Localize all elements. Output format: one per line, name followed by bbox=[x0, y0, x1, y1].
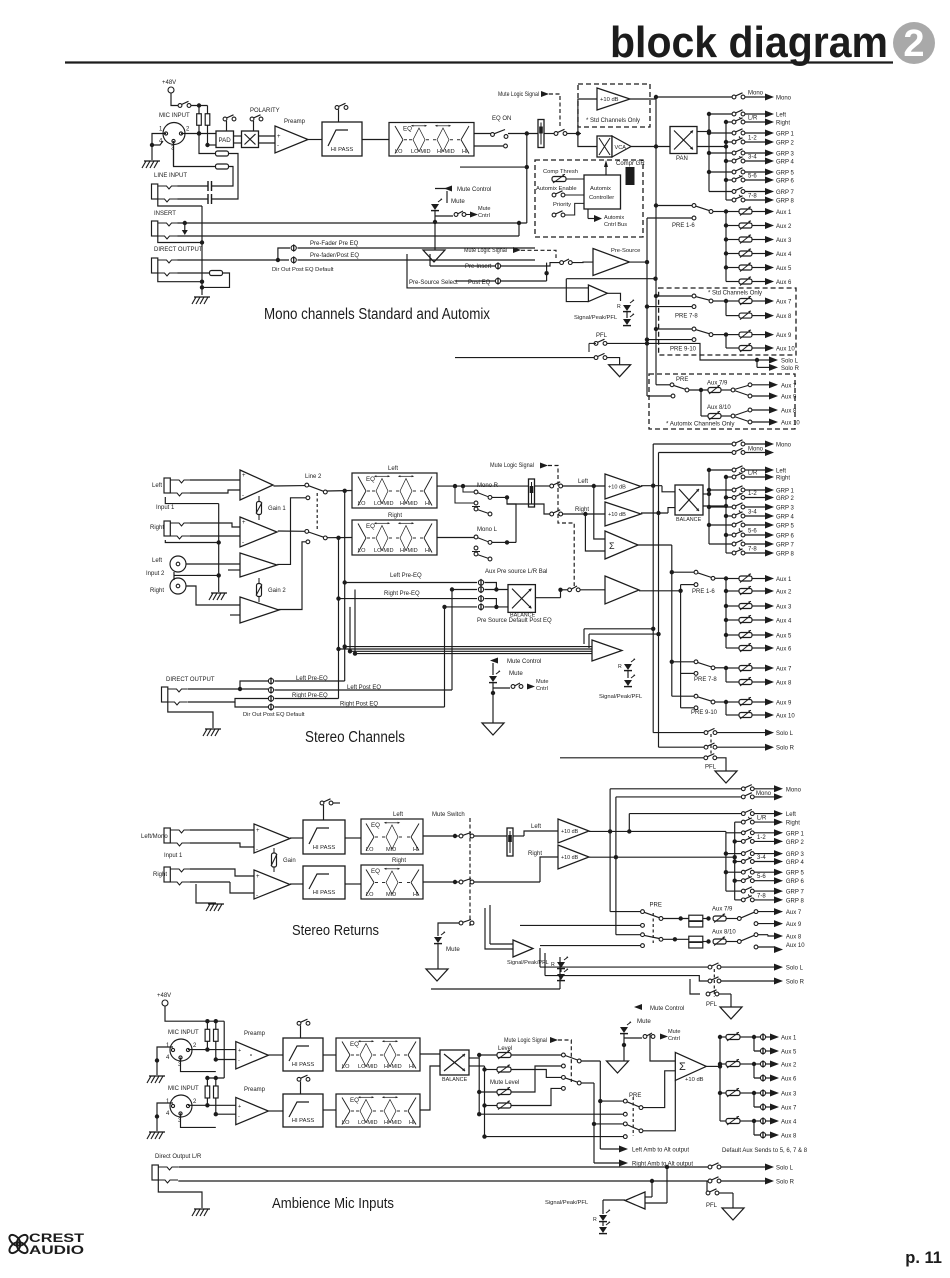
svg-text:GRP 4: GRP 4 bbox=[776, 160, 795, 166]
aux send pot Aux 2 bbox=[726, 225, 739, 227]
svg-text:EQ: EQ bbox=[366, 523, 375, 530]
S2 mute control arrow bbox=[490, 658, 498, 664]
svg-text:Mute: Mute bbox=[536, 679, 548, 685]
S2 pre feed vertical A bbox=[671, 545, 673, 696]
S2 sum amp input wires bbox=[594, 486, 605, 539]
wire to GRP 7 switch bbox=[709, 543, 734, 545]
S1 preamp op-amp bbox=[275, 126, 308, 153]
S1 XLR pin4 wire bbox=[152, 141, 163, 145]
S2 post EQ left wire bbox=[437, 485, 528, 487]
svg-text:Mute Control: Mute Control bbox=[457, 187, 491, 193]
svg-text:GRP 5: GRP 5 bbox=[776, 524, 795, 530]
S1 solo wires bbox=[757, 359, 769, 361]
S2 mute switch bbox=[493, 687, 510, 689]
S4 signal peak amp bbox=[625, 1192, 645, 1209]
svg-text:Gain 2: Gain 2 bbox=[268, 588, 286, 594]
S1 automix aux 8/10 switches bbox=[721, 415, 731, 417]
svg-text:Mute Logic Signal: Mute Logic Signal bbox=[504, 1038, 547, 1044]
svg-text:-: - bbox=[256, 893, 258, 899]
output arrow Aux 6 bbox=[765, 278, 774, 285]
svg-text:Direct Output L/R: Direct Output L/R bbox=[155, 1154, 202, 1160]
S1 pfl ground feed bbox=[607, 358, 620, 365]
switch and output GRP 7 bbox=[745, 191, 766, 193]
svg-text:* Automix Channels Only: * Automix Channels Only bbox=[666, 421, 735, 428]
S2 gain 2 pot bbox=[257, 584, 262, 597]
S1 signal peak led2 bbox=[623, 319, 631, 325]
svg-text:Signal/Peak/PFL: Signal/Peak/PFL bbox=[599, 694, 643, 700]
S1 pre-source select switch bbox=[560, 261, 564, 265]
S3 aux selector A bbox=[610, 911, 640, 913]
svg-text:HI PASS: HI PASS bbox=[331, 147, 354, 153]
svg-text:Aux 2: Aux 2 bbox=[776, 224, 792, 230]
svg-text:+48V: +48V bbox=[162, 80, 176, 86]
svg-text:* Std Channels Only: * Std Channels Only bbox=[586, 118, 640, 124]
S2 mute LED bbox=[489, 676, 497, 682]
S2 dir out tap lines bbox=[275, 680, 345, 682]
svg-text:DIRECT OUTPUT: DIRECT OUTPUT bbox=[166, 677, 215, 683]
S1 PAD block bbox=[216, 131, 234, 148]
S4 hipass2 switch bbox=[297, 1077, 301, 1081]
S2 mute wires bbox=[492, 663, 494, 675]
S1 signal amp out bbox=[607, 293, 620, 301]
svg-text:-: - bbox=[242, 493, 244, 499]
S4 pre selector outs bbox=[643, 1071, 675, 1108]
svg-text:PRE 7-8: PRE 7-8 bbox=[694, 677, 717, 683]
S2 sum amp bbox=[605, 531, 638, 559]
S3 pfl wires to section4 bbox=[431, 988, 560, 990]
svg-text:PRE 1-6: PRE 1-6 bbox=[692, 589, 715, 595]
svg-text:VCA: VCA bbox=[615, 145, 627, 151]
S3 signal amp feed lines bbox=[490, 943, 513, 945]
svg-text:Aux 10: Aux 10 bbox=[776, 347, 795, 353]
S4 switch A out bbox=[581, 1060, 600, 1062]
svg-text:Ambience Mic Inputs: Ambience Mic Inputs bbox=[272, 1195, 394, 1212]
S1 automix enable switch bbox=[552, 193, 556, 197]
S2 solo R row bbox=[659, 746, 706, 748]
switch and output Left bbox=[745, 469, 766, 471]
switch and output GRP 1 bbox=[745, 489, 766, 491]
wire to GRP 5 switch bbox=[709, 524, 734, 526]
aux send pot Aux 9 bbox=[726, 334, 739, 336]
S2 aux 7-8 feed bbox=[725, 668, 727, 682]
aux send pot Aux 5 bbox=[726, 634, 739, 636]
S1 PAD switch bbox=[223, 117, 227, 121]
svg-text:GRP 3: GRP 3 bbox=[786, 852, 805, 858]
S3 amp B bbox=[254, 870, 290, 899]
output arrow Aux 9 bbox=[765, 699, 774, 706]
svg-text:Aux 4: Aux 4 bbox=[781, 1120, 797, 1126]
output arrow Aux 3 bbox=[765, 603, 774, 610]
svg-text:Σ: Σ bbox=[679, 1061, 686, 1073]
S1 insert send wire bbox=[178, 222, 527, 224]
S1 mute logic dashed wire bbox=[549, 94, 560, 128]
S2 mono R tap wires bbox=[463, 486, 474, 492]
S3 signal peak amp bbox=[513, 940, 533, 957]
svg-text:-: - bbox=[277, 143, 279, 149]
S2 right input jack bbox=[164, 521, 170, 536]
S2 amp C out riser bbox=[277, 498, 306, 565]
svg-text:+: + bbox=[242, 520, 246, 526]
output arrow Aux 8 bbox=[765, 679, 774, 686]
S4 preamp 2 bbox=[236, 1097, 269, 1124]
svg-text:Aux 3: Aux 3 bbox=[776, 605, 792, 611]
S1 phantom resistor R2 bbox=[207, 106, 209, 115]
svg-text:Right Pre-EQ: Right Pre-EQ bbox=[384, 591, 420, 597]
switch and output Right bbox=[745, 121, 766, 123]
S1 priority switch bbox=[552, 213, 556, 217]
wire to GRP 4 switch bbox=[726, 515, 734, 517]
aux send pot Aux 8 bbox=[726, 315, 739, 317]
S2 balance aux block bbox=[508, 585, 535, 613]
S1 wire to +10dB amp bbox=[578, 99, 597, 134]
S4 right amb alt output bbox=[594, 1162, 619, 1164]
S1 comp gain-reduction meter bbox=[626, 167, 635, 185]
svg-text:HI PASS: HI PASS bbox=[313, 890, 336, 896]
S3 fader to +10dB bbox=[513, 835, 524, 837]
svg-text:1-2: 1-2 bbox=[748, 491, 757, 497]
S2 PRE 9-10 selector bbox=[694, 694, 698, 698]
S4 xlr2 wires bbox=[188, 1104, 238, 1106]
svg-text:Signal/Peak/PFL: Signal/Peak/PFL bbox=[545, 1200, 589, 1206]
svg-text:Mono L: Mono L bbox=[477, 527, 498, 533]
S4 aux node and output Aux 3 bbox=[760, 1090, 765, 1095]
svg-text:HI: HI bbox=[409, 1120, 415, 1126]
aux send pot Aux 10 bbox=[726, 714, 739, 716]
svg-text:Mute Control: Mute Control bbox=[650, 1006, 684, 1012]
S1 odd feed vertical bbox=[708, 114, 710, 192]
svg-text:Solo R: Solo R bbox=[776, 746, 795, 752]
S1 dir out ring resistor bbox=[210, 271, 223, 276]
S4 EQ 2 bbox=[336, 1094, 420, 1127]
svg-text:Aux 4: Aux 4 bbox=[776, 252, 792, 258]
svg-text:MIC INPUT: MIC INPUT bbox=[168, 1030, 199, 1036]
S1 pre-source routing lines bbox=[407, 254, 588, 288]
S1 signal amp bbox=[588, 285, 607, 302]
wire to Left switch bbox=[709, 469, 734, 471]
S2 aux 9-10 feed bbox=[725, 702, 727, 715]
output arrow Aux 2 bbox=[765, 222, 774, 229]
S2 signal amp wrap wires bbox=[584, 628, 653, 630]
S2 aux amp out bbox=[639, 590, 681, 592]
S4 hipass 2 bbox=[283, 1094, 323, 1127]
svg-text:PFL: PFL bbox=[706, 1002, 718, 1008]
title underline rule bbox=[65, 61, 893, 63]
S1 pfl out wires bbox=[607, 343, 758, 367]
aux send pot Aux 1 bbox=[726, 211, 739, 213]
svg-text:Mute: Mute bbox=[637, 1018, 651, 1025]
svg-text:Automix: Automix bbox=[590, 186, 611, 192]
wire to GRP 1 switch bbox=[709, 132, 734, 134]
S3 left mute switch bbox=[423, 835, 459, 837]
S2 left input jack bbox=[164, 478, 170, 493]
S2 left mute switch bbox=[550, 484, 554, 488]
switch and output GRP 6 bbox=[745, 534, 766, 536]
S4 aux pot Aux 3 bbox=[720, 1092, 726, 1094]
svg-text:Left: Left bbox=[776, 469, 786, 475]
svg-text:GRP 1: GRP 1 bbox=[776, 132, 795, 138]
svg-text:Aux 7: Aux 7 bbox=[781, 383, 797, 389]
svg-text:Solo R: Solo R bbox=[781, 366, 800, 372]
S2 right EQ block bbox=[352, 520, 437, 555]
S1 mic pad resistor 1 bbox=[216, 151, 229, 156]
S1 pfl solo feed line bbox=[455, 357, 595, 359]
S1 4-band EQ block bbox=[389, 123, 474, 157]
S3 aux8 aux10 outputs bbox=[774, 933, 783, 940]
S1 insert sleeve wire bbox=[158, 236, 202, 243]
S1 PRE 9-10 selector bbox=[692, 327, 696, 331]
svg-text:Dir Out Post EQ Default: Dir Out Post EQ Default bbox=[272, 267, 334, 273]
svg-text:Left: Left bbox=[393, 812, 403, 818]
S2 wires to EQs bbox=[327, 490, 352, 493]
S1 mic pad resistor 2 bbox=[216, 164, 229, 169]
S2 main bus L bbox=[652, 444, 654, 733]
page number badge circle 2 bbox=[893, 22, 935, 64]
svg-text:Signal/Peak/PFL: Signal/Peak/PFL bbox=[507, 960, 549, 966]
output arrow Aux 7 bbox=[765, 298, 774, 305]
svg-text:Mute: Mute bbox=[668, 1029, 680, 1035]
svg-text:GRP 7: GRP 7 bbox=[776, 190, 795, 196]
svg-text:Preamp: Preamp bbox=[244, 1087, 266, 1093]
S4 aux node and output Aux 8 bbox=[760, 1132, 765, 1137]
svg-text:5-6: 5-6 bbox=[748, 174, 757, 180]
wire to GRP 2 switch bbox=[726, 141, 734, 143]
svg-text:Aux 10: Aux 10 bbox=[781, 421, 800, 427]
svg-text:Aux 6: Aux 6 bbox=[776, 280, 792, 286]
S1 wires PAD to polarity to preamp bbox=[234, 135, 242, 137]
svg-text:GRP 2: GRP 2 bbox=[786, 840, 805, 846]
S1 signal amp input wires bbox=[566, 279, 588, 302]
svg-text:Aux Pre source L/R Bal: Aux Pre source L/R Bal bbox=[485, 569, 547, 575]
S1 pfl switches bbox=[594, 342, 598, 346]
wire to Right switch bbox=[726, 121, 734, 123]
S2 dir out node Left Post EQ bbox=[268, 687, 273, 692]
aux send pot Aux 4 bbox=[726, 253, 739, 255]
S3 even feed vertical bbox=[734, 822, 736, 900]
S2 dir out wires bbox=[188, 688, 268, 690]
svg-text:Left: Left bbox=[152, 483, 162, 489]
svg-text:Pre-fader/Post EQ: Pre-fader/Post EQ bbox=[310, 253, 359, 259]
svg-text:INSERT: INSERT bbox=[154, 211, 176, 217]
svg-text:Aux 8: Aux 8 bbox=[781, 1134, 797, 1140]
wire to GRP 3 switch bbox=[709, 506, 734, 508]
S3 right EQ bbox=[361, 865, 423, 899]
svg-text:MIC INPUT: MIC INPUT bbox=[159, 113, 190, 119]
svg-text:LO: LO bbox=[342, 1120, 350, 1126]
S1 pfl ground bbox=[609, 365, 631, 377]
svg-text:HI PASS: HI PASS bbox=[292, 1062, 315, 1068]
svg-text:HI: HI bbox=[462, 149, 468, 155]
S3 aux7 aux9 outputs bbox=[774, 908, 783, 915]
svg-text:MID: MID bbox=[386, 847, 396, 853]
svg-text:PRE 9-10: PRE 9-10 bbox=[670, 347, 697, 353]
S1 phantom resistor R1 bbox=[198, 106, 200, 115]
switch and output Right bbox=[745, 476, 766, 478]
svg-text:Right: Right bbox=[392, 858, 406, 864]
svg-text:Aux 1: Aux 1 bbox=[781, 1036, 797, 1042]
svg-text:Mute Control: Mute Control bbox=[507, 659, 541, 665]
svg-text:PRE 9-10: PRE 9-10 bbox=[691, 710, 718, 716]
S2 solo pfl gang dashed bbox=[710, 734, 712, 756]
svg-text:Pre Source Default Post EQ: Pre Source Default Post EQ bbox=[477, 618, 552, 624]
svg-text:Solo L: Solo L bbox=[776, 731, 794, 737]
output arrow Aux 4 bbox=[765, 617, 774, 624]
svg-text:Aux 8: Aux 8 bbox=[786, 935, 802, 941]
S3 input wires bbox=[190, 829, 254, 831]
svg-text:p. 11: p. 11 bbox=[905, 1249, 942, 1267]
svg-text:PAN: PAN bbox=[676, 156, 688, 162]
S2 ground bus bbox=[218, 504, 220, 592]
svg-text:EQ: EQ bbox=[403, 126, 412, 133]
S3 mute dashed line bbox=[469, 818, 471, 928]
svg-text:GRP 5: GRP 5 bbox=[786, 871, 805, 877]
svg-text:L/R: L/R bbox=[748, 471, 758, 477]
output arrow Aux 9 bbox=[765, 331, 774, 338]
S2 mono R tap switches bbox=[474, 490, 478, 494]
svg-text:Mute: Mute bbox=[451, 198, 465, 205]
S1 Mute Cntrl label and arrow bbox=[470, 212, 478, 218]
svg-text:3-4: 3-4 bbox=[757, 855, 766, 861]
S2 amp A input wires bbox=[190, 479, 240, 481]
S1 direct output jack bbox=[152, 258, 158, 273]
svg-text:Solo L: Solo L bbox=[781, 359, 799, 365]
svg-text:Mono: Mono bbox=[786, 787, 802, 793]
svg-text:Aux 8: Aux 8 bbox=[781, 409, 797, 415]
svg-text:3-4: 3-4 bbox=[748, 155, 757, 161]
S1 pan out wires bbox=[697, 131, 709, 133]
svg-text:Pre-Fader Pre EQ: Pre-Fader Pre EQ bbox=[310, 241, 359, 247]
S3 solo R row bbox=[545, 976, 708, 981]
svg-text:Solo R: Solo R bbox=[786, 980, 805, 986]
svg-text:GRP 2: GRP 2 bbox=[776, 496, 795, 502]
S2 PRE 1-6 selector bbox=[694, 570, 698, 574]
S3 left output row bbox=[741, 812, 745, 816]
svg-text:Mute: Mute bbox=[509, 670, 523, 677]
S1 insert return wire bbox=[178, 235, 520, 237]
aux send pot Aux 2 bbox=[726, 590, 739, 592]
S2 input2 right RCA bbox=[170, 578, 186, 594]
aux send pot Aux 6 bbox=[726, 647, 739, 649]
svg-text:Right: Right bbox=[388, 513, 402, 519]
svg-text:7-8: 7-8 bbox=[748, 547, 757, 553]
output arrow Aux 3 bbox=[765, 236, 774, 243]
S3 left row riser bbox=[628, 814, 630, 832]
svg-text:GRP 6: GRP 6 bbox=[776, 179, 795, 185]
svg-text:Stereo Channels: Stereo Channels bbox=[305, 729, 405, 746]
svg-text:+: + bbox=[277, 134, 281, 140]
S2 mono L tap switches bbox=[474, 535, 478, 539]
S1 main bus vertical bbox=[655, 99, 657, 385]
svg-text:R: R bbox=[593, 1217, 597, 1223]
svg-text:HI-MID: HI-MID bbox=[437, 149, 455, 155]
S4 solo L line bbox=[178, 1166, 708, 1168]
aux send pot Aux 7 bbox=[726, 667, 739, 669]
svg-text:Right: Right bbox=[528, 851, 542, 857]
switch and output GRP 8 bbox=[745, 552, 766, 554]
S3 solo L row bbox=[540, 966, 708, 968]
svg-text:Mute Logic Signal: Mute Logic Signal bbox=[464, 248, 507, 254]
S1 pre-fader node bbox=[291, 245, 296, 250]
aux send pot Aux 5 bbox=[726, 267, 739, 269]
S1 wire hipass to EQ bbox=[362, 139, 389, 141]
svg-text:Right: Right bbox=[776, 476, 790, 482]
svg-text:HI-MID: HI-MID bbox=[400, 501, 418, 507]
S2 line2 selector A bbox=[274, 485, 306, 487]
svg-text:Aux 5: Aux 5 bbox=[776, 266, 792, 272]
S4 pre dashed link bbox=[632, 1097, 634, 1136]
svg-text:Aux 8/10: Aux 8/10 bbox=[707, 405, 731, 411]
svg-text:HI: HI bbox=[413, 892, 419, 898]
S4 level select switch B bbox=[511, 1070, 562, 1078]
svg-text:Aux 1: Aux 1 bbox=[776, 210, 792, 216]
S1 wire to VCA bbox=[578, 134, 597, 147]
svg-text:2: 2 bbox=[903, 23, 924, 65]
S2 Mono output row bbox=[653, 443, 734, 445]
wire to GRP 6 switch bbox=[726, 534, 734, 536]
svg-text:LINE INPUT: LINE INPUT bbox=[154, 173, 187, 179]
S1 automix aux 7/9 switches bbox=[721, 389, 731, 391]
S1 wire fader to mute switch bbox=[544, 133, 555, 135]
svg-text:PAD: PAD bbox=[219, 137, 232, 144]
svg-text:Preamp: Preamp bbox=[284, 119, 306, 125]
S2 post EQ right wire bbox=[437, 537, 476, 539]
S1 phantom switch bbox=[178, 104, 182, 108]
S1 mute switch bbox=[554, 132, 558, 136]
svg-text:Default Aux Sends to 5, 6, 7 &: Default Aux Sends to 5, 6, 7 & 8 bbox=[722, 1148, 808, 1154]
S1 mute ground bbox=[423, 250, 445, 262]
svg-text:Mono channels Standard and Aut: Mono channels Standard and Automix bbox=[264, 306, 490, 323]
S1 insert send-return arrow bbox=[183, 221, 187, 225]
svg-text:GRP 8: GRP 8 bbox=[776, 552, 795, 558]
svg-text:AUDIO: AUDIO bbox=[29, 1243, 84, 1257]
S4 hipass 1 bbox=[283, 1038, 323, 1071]
svg-text:HI: HI bbox=[409, 1064, 415, 1070]
svg-text:BALANCE: BALANCE bbox=[442, 1077, 468, 1083]
S1 lower signal wire to PAD bbox=[208, 144, 217, 146]
svg-text:block diagram: block diagram bbox=[610, 18, 888, 67]
S4 xlr2 ground bbox=[157, 1103, 173, 1131]
S3 odd feed vertical bbox=[725, 831, 727, 891]
svg-text:Aux 2: Aux 2 bbox=[781, 1063, 797, 1069]
output arrow Aux 4 bbox=[765, 250, 774, 257]
svg-text:Mute: Mute bbox=[446, 946, 460, 953]
svg-text:HI: HI bbox=[425, 501, 431, 507]
S1 left chain ground bbox=[194, 296, 210, 298]
svg-text:+10 dB: +10 dB bbox=[608, 485, 626, 491]
svg-text:1-2: 1-2 bbox=[757, 835, 766, 841]
S3 aux 7/9 pot bbox=[703, 918, 708, 920]
S3 left EQ bbox=[361, 819, 423, 854]
S2 amp C bbox=[240, 553, 277, 577]
aux send pot Aux 4 bbox=[726, 619, 739, 621]
S3 bus verticals bbox=[609, 789, 611, 912]
S3 +10dB amp right bbox=[558, 845, 589, 869]
svg-text:Mono: Mono bbox=[756, 791, 772, 797]
svg-text:Pre-Source Select: Pre-Source Select bbox=[409, 280, 458, 286]
S1 line input sleeve wire bbox=[158, 199, 202, 206]
svg-text:Left: Left bbox=[531, 824, 541, 830]
S2 +10dB amp left bbox=[605, 474, 641, 499]
svg-text:Cntrl: Cntrl bbox=[536, 686, 548, 692]
S3 left path to fader bbox=[474, 835, 507, 837]
svg-text:Solo R: Solo R bbox=[776, 1180, 795, 1186]
wire to Left switch bbox=[709, 113, 734, 115]
svg-text:+48V: +48V bbox=[157, 993, 171, 999]
aux send pot Aux 3 bbox=[726, 239, 739, 241]
S4 EQ 1 bbox=[336, 1038, 420, 1071]
S3 mute LED bbox=[434, 937, 442, 943]
output arrow Aux 2 bbox=[765, 588, 774, 595]
S4 aux node and output Aux 2 bbox=[760, 1061, 765, 1066]
